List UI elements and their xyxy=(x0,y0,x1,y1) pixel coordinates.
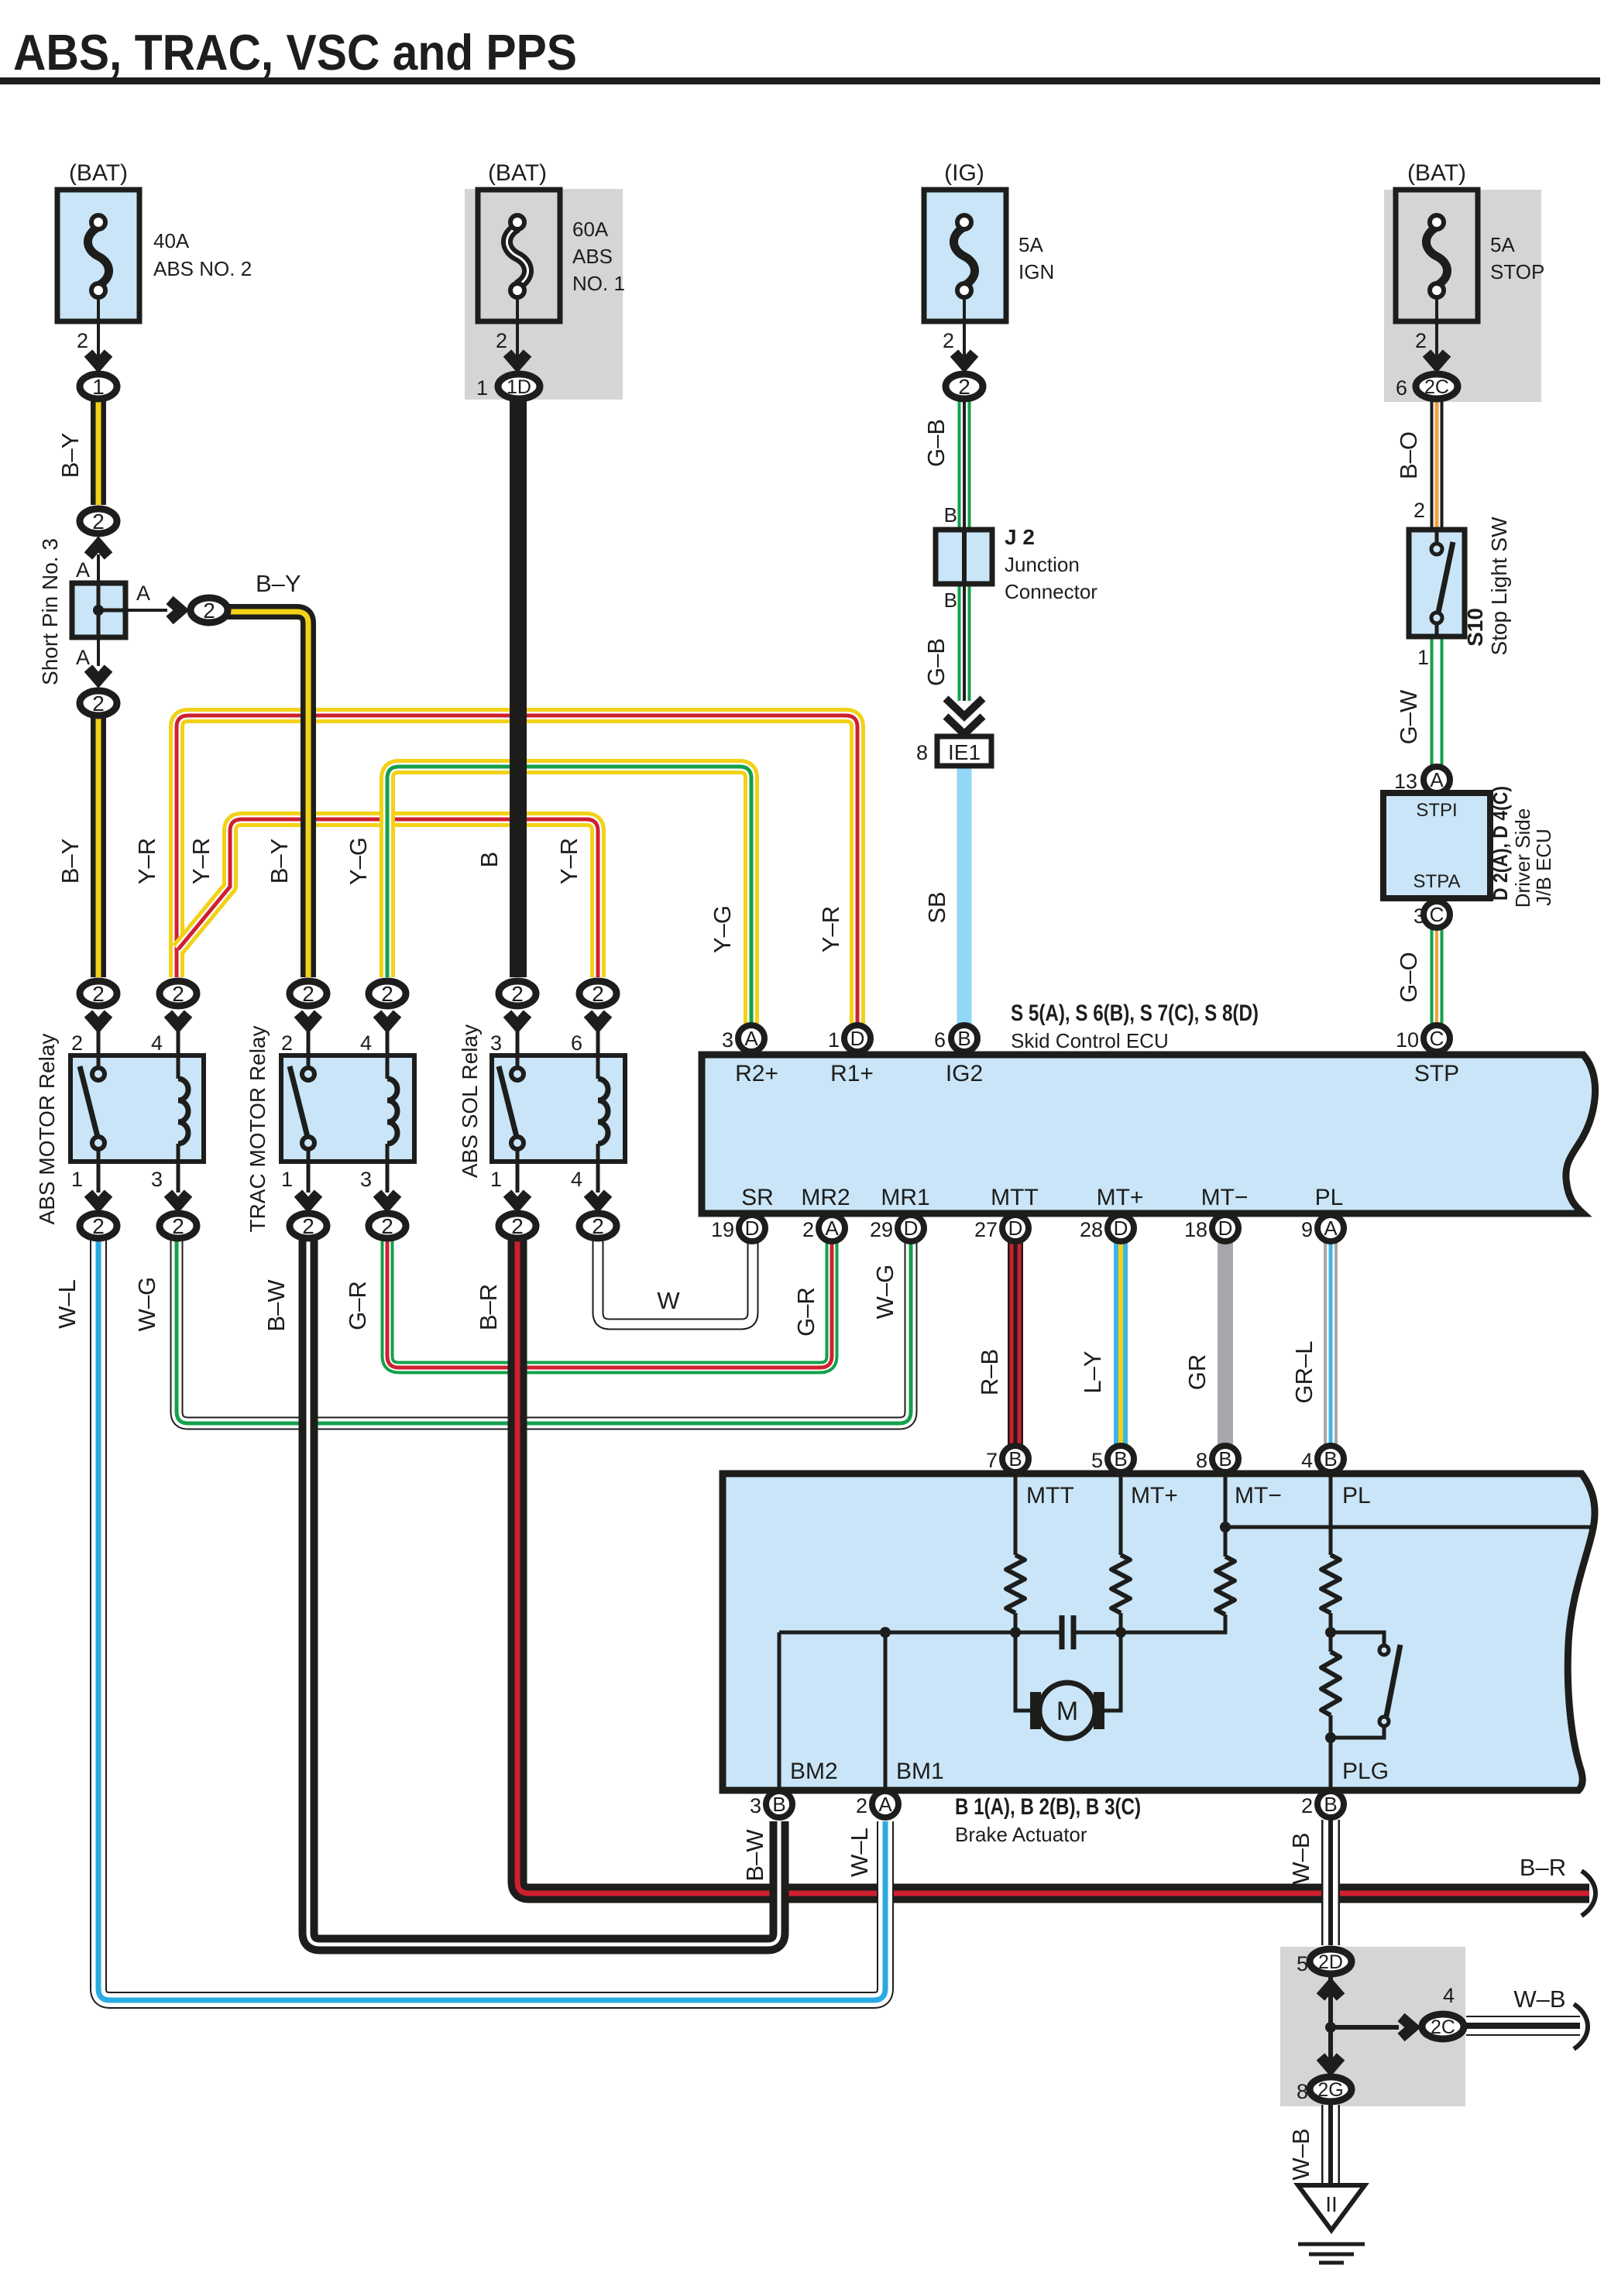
svg-text:B–Y: B–Y xyxy=(57,433,84,479)
svg-text:1: 1 xyxy=(281,1168,293,1191)
lead below short pin xyxy=(97,637,100,666)
svg-text:1: 1 xyxy=(828,1028,840,1052)
gray background block fuse STOP xyxy=(1384,190,1541,402)
svg-text:2: 2 xyxy=(592,982,604,1006)
PL switch bottom wire xyxy=(1331,1726,1384,1738)
svg-text:B: B xyxy=(1324,1447,1337,1471)
connector 2 below relay pin x127 xyxy=(80,1213,117,1238)
arrow fuse1 xyxy=(88,353,108,365)
pin A MR2 xyxy=(819,1215,845,1241)
svg-text:8: 8 xyxy=(1297,2080,1308,2103)
wire W-L ABS MOTOR relay pin1 to actuator BM1 xyxy=(98,1237,885,2000)
svg-text:5: 5 xyxy=(1297,1952,1308,1975)
wire B fuse ABS NO.1 to ABS SOL relay xyxy=(510,396,527,977)
wire W-G ABS MOTOR relay pin3 to ECU MR1 xyxy=(177,1237,911,1423)
svg-text:2: 2 xyxy=(1301,1794,1313,1817)
PL switch contact bottom xyxy=(1379,1717,1389,1726)
svg-text:2: 2 xyxy=(92,982,105,1006)
brake actuator box xyxy=(723,1474,1595,1790)
svg-text:MT−: MT− xyxy=(1235,1483,1282,1508)
actuator BM2 lead xyxy=(778,1632,781,1790)
lead into relay r1p4 xyxy=(177,1030,180,1055)
svg-text:II: II xyxy=(1325,2192,1338,2216)
wire W-B actuator PLG to connector 2D xyxy=(1321,1820,1340,1945)
svg-text:6: 6 xyxy=(571,1031,582,1055)
pin C J/B ECU bottom xyxy=(1424,901,1450,928)
PL switch contact top xyxy=(1379,1646,1389,1655)
wire W ABS SOL relay pin4 to ECU SR xyxy=(598,1237,753,1324)
wire branch to 2C xyxy=(1331,2025,1399,2030)
svg-text:W: W xyxy=(657,1287,680,1314)
svg-text:2: 2 xyxy=(511,982,524,1006)
svg-text:BM1: BM1 xyxy=(896,1759,944,1784)
svg-text:B–Y: B–Y xyxy=(256,570,301,597)
svg-text:MTT: MTT xyxy=(991,1185,1039,1210)
svg-text:B: B xyxy=(772,1793,785,1816)
double chevron arrow into IE1 xyxy=(946,698,983,734)
arrow up to short pin xyxy=(88,544,108,556)
svg-text:B–W: B–W xyxy=(263,1279,290,1332)
title underline xyxy=(0,77,1600,84)
resistor PL xyxy=(1321,1555,1340,1613)
svg-text:L–Y: L–Y xyxy=(1079,1350,1106,1393)
svg-text:A: A xyxy=(825,1217,839,1240)
actuator MT+ lead xyxy=(1119,1474,1123,1555)
actuator bus wire xyxy=(779,1613,1331,1632)
actuator BM1 lead xyxy=(884,1632,888,1790)
gray background block fuse ABS NO.1 xyxy=(465,189,623,400)
svg-text:W–B: W–B xyxy=(1287,1832,1314,1884)
arrow below relay pin 4 x772 xyxy=(588,1193,608,1205)
svg-text:A: A xyxy=(744,1027,758,1050)
svg-text:3: 3 xyxy=(490,1031,502,1055)
svg-text:D: D xyxy=(1008,1217,1023,1240)
actuator top pin B x1718 xyxy=(1317,1446,1344,1472)
actuator PL lead xyxy=(1329,1474,1333,1555)
svg-text:2: 2 xyxy=(77,329,88,352)
svg-text:2: 2 xyxy=(92,692,105,716)
svg-text:B: B xyxy=(1008,1447,1022,1471)
resistor PLG xyxy=(1321,1652,1340,1715)
connector 2 below short pin xyxy=(80,691,117,716)
arrow above relay pin r2p4 xyxy=(377,1014,397,1025)
svg-text:MT+: MT+ xyxy=(1097,1185,1144,1210)
svg-text:D 2(A), D 4(C): D 2(A), D 4(C) xyxy=(1489,786,1512,901)
connector 1 col1 xyxy=(80,374,117,399)
svg-text:ABS SOL Relay: ABS SOL Relay xyxy=(458,1024,482,1178)
svg-text:PL: PL xyxy=(1315,1185,1344,1210)
svg-text:PLG: PLG xyxy=(1342,1759,1389,1784)
svg-text:A: A xyxy=(1324,1217,1338,1240)
actuator top pin B x1311 xyxy=(1002,1446,1029,1472)
svg-text:28: 28 xyxy=(1080,1218,1103,1241)
svg-text:Y–R: Y–R xyxy=(133,838,160,884)
resistor MT- xyxy=(1216,1556,1235,1615)
svg-text:IG2: IG2 xyxy=(946,1061,983,1086)
actuator top pin B x1447 xyxy=(1108,1446,1134,1472)
arrow down to 2G xyxy=(1321,2057,1341,2068)
relay ABS SOL xyxy=(492,1055,625,1162)
junction dot PL resistor bottom xyxy=(1325,1627,1336,1638)
svg-text:2: 2 xyxy=(203,599,215,623)
svg-text:Skid Control ECU: Skid Control ECU xyxy=(1011,1029,1169,1052)
lead fuse3 xyxy=(963,297,966,356)
svg-text:2: 2 xyxy=(92,1214,105,1238)
lead into relay r1p2 xyxy=(97,1030,101,1055)
svg-text:Driver Side: Driver Side xyxy=(1511,808,1534,908)
svg-text:2G: 2G xyxy=(1317,2079,1343,2101)
svg-text:STPA: STPA xyxy=(1413,871,1461,892)
wire Y-R bus R1+ to ABS MOTOR relay coil xyxy=(177,716,857,1024)
lead out of relay pin 1 x398 xyxy=(307,1162,311,1193)
svg-text:27: 27 xyxy=(974,1218,998,1241)
svg-text:C: C xyxy=(1430,1027,1444,1050)
PL switch top wire xyxy=(1331,1632,1384,1645)
junction dot MT+ bus xyxy=(1115,1627,1126,1638)
wire B-Y short pin branch to TRAC MOTOR relay xyxy=(227,612,308,977)
capacitor xyxy=(1062,1615,1073,1649)
pin D MT+ xyxy=(1108,1215,1134,1241)
svg-text:4: 4 xyxy=(151,1031,163,1055)
svg-text:MR1: MR1 xyxy=(881,1185,929,1210)
svg-text:2: 2 xyxy=(381,1214,393,1238)
svg-text:MR2: MR2 xyxy=(801,1185,850,1210)
svg-text:2D: 2D xyxy=(1318,1951,1343,1973)
wire SB IE1 to ECU IG2 xyxy=(957,764,972,1024)
wire G-O J/B ECU to ECU STP xyxy=(1431,928,1444,1024)
svg-text:B: B xyxy=(944,589,957,612)
svg-text:B–W: B–W xyxy=(741,1829,768,1882)
svg-text:2: 2 xyxy=(172,982,184,1006)
break symbol B-R right edge xyxy=(1582,1871,1596,1916)
svg-text:2: 2 xyxy=(496,329,507,352)
svg-text:2: 2 xyxy=(381,982,393,1006)
svg-text:M: M xyxy=(1056,1697,1078,1726)
arrow above relay pin r3p3 xyxy=(507,1014,527,1025)
wire B-O STOP fuse to stop light switch xyxy=(1431,396,1444,533)
skid control ECU box xyxy=(702,1055,1596,1213)
svg-text:13: 13 xyxy=(1394,770,1417,793)
svg-text:B: B xyxy=(957,1027,970,1050)
junction dot MTT bus xyxy=(1010,1627,1021,1638)
lead out of relay pin 1 x127 xyxy=(97,1162,101,1193)
svg-text:1: 1 xyxy=(71,1168,83,1191)
relay TRAC MOTOR xyxy=(281,1055,414,1162)
pin B IG2 xyxy=(951,1025,977,1052)
break symbol W-B right edge xyxy=(1574,2004,1588,2049)
wire W-B connector 2C to right edge xyxy=(1466,2016,1580,2036)
svg-text:18: 18 xyxy=(1184,1218,1207,1241)
svg-text:(BAT): (BAT) xyxy=(488,160,547,186)
svg-text:3: 3 xyxy=(151,1168,163,1191)
svg-text:W–G: W–G xyxy=(871,1265,898,1320)
relay ABS MOTOR xyxy=(70,1055,204,1162)
lead fuse4 xyxy=(1435,297,1438,356)
junction dot bottom right xyxy=(1325,2022,1336,2033)
svg-text:J 2: J 2 xyxy=(1005,525,1035,549)
svg-text:D: D xyxy=(904,1217,919,1240)
arrow to 2C xyxy=(1401,2017,1413,2037)
svg-text:NO. 1: NO. 1 xyxy=(572,272,625,295)
arrow below relay pin 3 x230 xyxy=(168,1193,188,1205)
svg-text:PL: PL xyxy=(1342,1483,1371,1508)
connector 2 below relay pin x668 xyxy=(499,1213,536,1238)
svg-text:4: 4 xyxy=(360,1031,372,1055)
arrow above relay pin r2p2 xyxy=(298,1014,318,1025)
svg-text:IGN: IGN xyxy=(1018,260,1054,283)
gray background block connectors 2D/2G xyxy=(1280,1947,1465,2106)
svg-text:2: 2 xyxy=(302,1214,314,1238)
svg-text:(IG): (IG) xyxy=(944,160,984,186)
svg-text:W–L: W–L xyxy=(53,1279,81,1329)
wire B-Y fuse ABS NO.2 to short pin xyxy=(91,396,106,505)
wire Y-R bus ABS SOL relay coil branch xyxy=(178,819,598,977)
connector 2 below relay pin x230 xyxy=(160,1213,197,1238)
svg-text:5A: 5A xyxy=(1490,233,1515,256)
arrow short pin branch xyxy=(170,600,181,620)
svg-text:W–G: W–G xyxy=(133,1277,160,1332)
svg-text:MTT: MTT xyxy=(1026,1483,1074,1508)
fuse 5A STOP xyxy=(1396,190,1478,321)
lead fuse2 xyxy=(516,297,519,356)
wire through short pin xyxy=(98,583,125,637)
svg-text:GR–L: GR–L xyxy=(1290,1341,1317,1404)
svg-text:Y–R: Y–R xyxy=(187,838,215,884)
junction dot short pin xyxy=(93,605,104,616)
svg-text:A: A xyxy=(878,1793,892,1816)
wire GR-L PL xyxy=(1324,1239,1338,1447)
connector 2 above relay pin r3p3 xyxy=(499,981,536,1006)
actuator top pin B x1582 xyxy=(1212,1446,1238,1472)
lead into relay r2p2 xyxy=(307,1030,311,1055)
svg-text:4: 4 xyxy=(1443,1984,1455,2007)
svg-text:Junction: Junction xyxy=(1005,553,1080,576)
wire G-B IGN fuse to J2 xyxy=(958,396,971,534)
svg-text:STP: STP xyxy=(1414,1061,1459,1086)
svg-text:G–R: G–R xyxy=(792,1287,819,1337)
connector 2 above relay pin r1p4 xyxy=(160,981,197,1006)
lead fuse1 xyxy=(97,297,100,356)
connector 2 above relay pin r2p2 xyxy=(290,981,327,1006)
connector 1D xyxy=(498,374,540,399)
svg-text:B–R: B–R xyxy=(1520,1854,1566,1881)
svg-text:D: D xyxy=(745,1217,760,1240)
arrow below relay pin 1 x398 xyxy=(298,1193,318,1205)
actuator MTT lead xyxy=(1014,1474,1018,1555)
svg-text:MT−: MT− xyxy=(1201,1185,1249,1210)
actuator MT- to right edge wire xyxy=(1225,1526,1592,1529)
svg-text:ABS NO. 2: ABS NO. 2 xyxy=(153,257,252,280)
motor M xyxy=(1030,1683,1104,1738)
svg-text:SB: SB xyxy=(923,891,950,923)
connector 2G xyxy=(1310,2077,1352,2102)
svg-text:C: C xyxy=(1430,903,1444,926)
svg-text:19: 19 xyxy=(711,1218,734,1241)
svg-text:S10: S10 xyxy=(1463,608,1487,647)
svg-text:GR: GR xyxy=(1183,1354,1211,1391)
svg-text:60A: 60A xyxy=(572,218,609,241)
svg-text:Short Pin No. 3: Short Pin No. 3 xyxy=(38,538,62,685)
svg-text:1: 1 xyxy=(1417,646,1429,669)
svg-text:W–B: W–B xyxy=(1513,1985,1565,2013)
svg-text:R–B: R–B xyxy=(976,1349,1003,1395)
svg-text:29: 29 xyxy=(870,1218,893,1241)
wire L-Y MT+ xyxy=(1114,1239,1128,1447)
svg-text:6: 6 xyxy=(934,1028,946,1052)
svg-text:R1+: R1+ xyxy=(830,1061,874,1086)
svg-text:2: 2 xyxy=(302,982,314,1006)
svg-text:2: 2 xyxy=(958,375,970,399)
junction dot MT- 1972 xyxy=(1220,1522,1231,1532)
svg-text:3: 3 xyxy=(360,1168,372,1191)
wire GR MT- xyxy=(1218,1239,1233,1447)
svg-text:2: 2 xyxy=(802,1218,814,1241)
connector 2 col3 xyxy=(946,374,983,399)
fuse 40A ABS NO.2 xyxy=(57,190,139,321)
fuse 60A ABS NO.1 xyxy=(478,190,560,321)
svg-text:G–R: G–R xyxy=(344,1281,371,1330)
svg-text:TRAC MOTOR Relay: TRAC MOTOR Relay xyxy=(246,1025,270,1232)
PL switch blade xyxy=(1386,1645,1400,1716)
svg-text:B–O: B–O xyxy=(1395,431,1422,479)
svg-text:1: 1 xyxy=(92,375,105,399)
svg-text:S 5(A), S 6(B), S 7(C), S 8(D): S 5(A), S 6(B), S 7(C), S 8(D) xyxy=(1011,1000,1259,1026)
svg-text:1: 1 xyxy=(490,1168,502,1191)
svg-text:B–Y: B–Y xyxy=(266,839,293,884)
svg-text:R2+: R2+ xyxy=(735,1061,778,1086)
svg-text:SR: SR xyxy=(741,1185,774,1210)
connector 2 above relay pin r1p2 xyxy=(80,981,117,1006)
ground triangle II xyxy=(1298,2185,1365,2230)
lead into relay r2p4 xyxy=(386,1030,390,1055)
svg-text:7: 7 xyxy=(986,1449,998,1472)
svg-text:3: 3 xyxy=(722,1028,733,1052)
connector IE1 xyxy=(937,736,991,766)
svg-text:8: 8 xyxy=(916,741,928,764)
svg-text:(BAT): (BAT) xyxy=(1407,160,1466,186)
svg-text:A: A xyxy=(1430,768,1444,791)
junction dot BM1 xyxy=(880,1627,891,1638)
wire link 2D to 2G xyxy=(1328,1975,1333,2077)
connector 2 below fuse1 xyxy=(80,509,117,534)
arrow fuse2 xyxy=(507,353,527,365)
svg-text:2: 2 xyxy=(943,329,954,352)
actuator MT- lead xyxy=(1224,1474,1228,1556)
svg-text:1: 1 xyxy=(476,376,488,400)
pin A PL xyxy=(1317,1215,1344,1241)
lead out of relay pin 3 x230 xyxy=(177,1162,180,1193)
lead out of relay pin 1 x668 xyxy=(516,1162,520,1193)
svg-text:2: 2 xyxy=(71,1031,83,1055)
junction connector J2 xyxy=(936,530,992,584)
lead into relay r3p3 xyxy=(516,1030,520,1055)
svg-text:9: 9 xyxy=(1301,1218,1313,1241)
svg-text:ABS: ABS xyxy=(572,245,613,268)
actuator pin B BM2 xyxy=(766,1791,792,1817)
svg-text:6: 6 xyxy=(1396,376,1407,400)
arrow above relay pin r1p4 xyxy=(168,1014,188,1025)
svg-text:STOP: STOP xyxy=(1490,260,1544,283)
wire G-B J2 to IE1 xyxy=(958,581,971,701)
svg-text:ABS, TRAC, VSC and PPS: ABS, TRAC, VSC and PPS xyxy=(13,24,577,81)
svg-text:2: 2 xyxy=(1415,329,1427,352)
resistor MT+ xyxy=(1111,1555,1130,1613)
arrow up to 2D xyxy=(1321,1985,1341,1997)
arrow fuse3 xyxy=(954,353,974,365)
svg-text:Brake Actuator: Brake Actuator xyxy=(955,1823,1087,1846)
connector 2 above relay pin r3p6 xyxy=(579,981,617,1006)
svg-text:1D: 1D xyxy=(507,376,531,398)
connector 2D xyxy=(1310,1949,1352,1974)
wire B-W TRAC MOTOR relay pin1 to actuator BM2 xyxy=(308,1237,779,1944)
svg-text:B: B xyxy=(944,503,957,527)
arrow below relay pin 1 x668 xyxy=(507,1193,527,1205)
svg-text:IE1: IE1 xyxy=(948,740,981,764)
connector 2C bottom xyxy=(1422,2014,1464,2039)
short pin box xyxy=(72,583,125,637)
wire G-R TRAC MOTOR relay pin3 to ECU MR2 xyxy=(387,1237,832,1368)
pin C STP xyxy=(1424,1025,1450,1052)
svg-text:A: A xyxy=(76,646,90,669)
svg-text:4: 4 xyxy=(571,1168,582,1191)
svg-text:2: 2 xyxy=(92,510,105,534)
actuator pin B PLG xyxy=(1317,1791,1344,1817)
svg-text:B: B xyxy=(1218,1447,1231,1471)
pin A R2+ xyxy=(738,1025,764,1052)
motor leads xyxy=(1015,1632,1121,1711)
lead to short pin xyxy=(97,554,100,583)
svg-text:G–W: G–W xyxy=(1395,689,1422,744)
svg-text:D: D xyxy=(850,1027,865,1050)
svg-text:W–L: W–L xyxy=(846,1828,873,1877)
wire G-W stop light switch to J/B ECU xyxy=(1431,633,1444,767)
wire B-Y short pin to ABS MOTOR relay xyxy=(91,714,106,977)
resistor MTT xyxy=(1006,1555,1025,1613)
pin A J/B ECU top xyxy=(1424,767,1450,793)
wire B-R ABS SOL relay pin1 to right edge xyxy=(517,1237,1589,1893)
svg-text:5A: 5A xyxy=(1018,233,1043,256)
svg-text:8: 8 xyxy=(1196,1449,1207,1472)
PLG lead vertical xyxy=(1329,1632,1333,1790)
svg-text:B 1(A), B 2(B), B 3(C): B 1(A), B 2(B), B 3(C) xyxy=(955,1794,1141,1820)
svg-text:A: A xyxy=(76,558,90,582)
lead short pin to branch arrow xyxy=(125,609,167,612)
svg-text:G–B: G–B xyxy=(922,419,950,467)
svg-text:2: 2 xyxy=(511,1214,524,1238)
J/B ECU box xyxy=(1383,793,1490,898)
svg-text:2: 2 xyxy=(592,1214,604,1238)
svg-text:B: B xyxy=(476,852,503,868)
svg-text:MT+: MT+ xyxy=(1131,1483,1178,1508)
svg-text:Y–R: Y–R xyxy=(817,906,844,952)
svg-text:10: 10 xyxy=(1396,1028,1419,1052)
svg-text:2: 2 xyxy=(172,1214,184,1238)
svg-text:G–O: G–O xyxy=(1395,952,1422,1002)
pin D R1+ xyxy=(844,1025,871,1052)
wire Y-G bus R2+ to TRAC MOTOR relay coil xyxy=(387,767,751,1024)
connector 2 below relay pin x398 xyxy=(290,1213,327,1238)
wire R-B MTT xyxy=(1008,1239,1023,1447)
svg-text:D: D xyxy=(1218,1217,1233,1240)
svg-text:J/B ECU: J/B ECU xyxy=(1532,829,1555,906)
arrow fuse4 xyxy=(1427,353,1447,365)
pin D SR xyxy=(739,1215,765,1241)
connector 2 above relay pin r2p4 xyxy=(369,981,406,1006)
svg-text:3: 3 xyxy=(750,1794,761,1817)
svg-text:ABS MOTOR Relay: ABS MOTOR Relay xyxy=(35,1034,59,1225)
lead into relay r3p6 xyxy=(596,1030,600,1055)
connector 2C top xyxy=(1416,374,1458,399)
